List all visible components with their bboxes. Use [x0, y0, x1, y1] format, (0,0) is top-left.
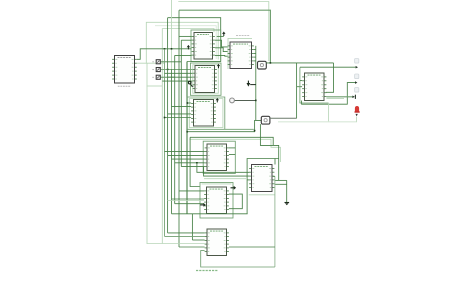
wire light stub	[147, 85, 163, 87]
junction	[254, 130, 256, 132]
wire button1 to right	[266, 62, 333, 64]
label above U5	[236, 35, 250, 37]
wire to U8 pin4 light	[168, 200, 205, 202]
clock/pin marker circle	[230, 98, 235, 103]
wire light echo	[204, 178, 246, 180]
power symbol	[231, 186, 237, 190]
power symbol	[216, 98, 219, 103]
wire to U7 pin6	[181, 166, 204, 168]
wire loop light around U5	[228, 38, 252, 69]
power symbol	[217, 64, 220, 68]
wire bundle v5	[178, 10, 180, 247]
junction	[270, 62, 272, 64]
junction	[187, 102, 189, 104]
wire loop around U3	[190, 63, 221, 95]
wire down to U8 loop	[190, 137, 200, 186]
wire loop around U2	[191, 30, 221, 62]
wire U2 to U5 c	[215, 54, 228, 57]
LED D1 red	[355, 106, 360, 113]
junction	[164, 117, 166, 119]
wire U1.p2 light	[137, 62, 165, 64]
wire to U2 pin6	[175, 54, 192, 56]
wire P1 to U2	[217, 35, 224, 37]
wire U7 right a	[229, 147, 235, 149]
wire bundle v2	[167, 18, 169, 233]
wire light below U9	[249, 194, 275, 196]
wire U5 pin stub	[254, 52, 256, 54]
wire to U10 pin4 light	[147, 243, 205, 245]
logic probe LP2	[355, 74, 359, 79]
wire long light vertical	[161, 29, 163, 244]
junction	[255, 100, 257, 102]
wire to U10 pin1	[168, 232, 205, 234]
wire v to U10	[191, 214, 193, 240]
IC U1 counter	[112, 55, 137, 83]
wire to button2	[188, 120, 262, 131]
wire to U3 pin3	[168, 76, 193, 78]
wire net-top light	[178, 2, 268, 62]
wire to U10 pin3	[192, 239, 204, 241]
value label below U1	[118, 85, 131, 87]
wire U1.p1 to U2 pin4	[137, 49, 192, 60]
wire to U6 pin	[297, 86, 303, 88]
wire S1 out	[161, 61, 182, 63]
IC U5	[228, 42, 254, 69]
wire U7 tap to U9 pin2	[197, 163, 250, 173]
junction	[164, 48, 166, 50]
push button B1	[258, 61, 267, 69]
wire light echo probe3	[326, 97, 344, 99]
logic input S2	[152, 68, 160, 72]
wire to U4 pin1	[187, 102, 191, 104]
wire bundle v6	[180, 40, 182, 166]
wire to U7 pin4	[172, 158, 205, 160]
power symbol U3 left	[188, 81, 193, 86]
wire loop around U4	[187, 97, 225, 129]
arrow probe3	[352, 95, 355, 99]
arrow probe1	[356, 66, 358, 69]
wire to U8 pin3	[172, 198, 205, 200]
IC U4	[191, 100, 216, 127]
wire light echo to U9	[190, 139, 281, 162]
wire loop lighter	[155, 26, 216, 59]
IC U7	[205, 144, 229, 171]
arrow below LED	[356, 114, 358, 117]
wire bundle v3	[171, 69, 173, 214]
IC U3	[193, 66, 217, 93]
wire U2 to U5 a	[215, 40, 228, 47]
junction	[186, 131, 188, 133]
wire stub U6	[300, 80, 302, 82]
wire button2 bottom to U9	[260, 124, 278, 180]
wire loop around U8	[200, 183, 233, 219]
logic probe LP3	[355, 88, 359, 93]
wire to U8 pin5	[175, 203, 204, 205]
push button B2	[261, 116, 270, 124]
wire U9 pin stub	[273, 175, 275, 177]
wire light to LED net	[328, 103, 330, 122]
wire to U7 pin3	[168, 154, 205, 156]
wire to probe2	[302, 83, 355, 105]
power symbol	[200, 203, 206, 207]
wire loop around U7	[203, 141, 235, 173]
wire to probe3	[326, 96, 352, 98]
wire U9 to gnd b	[274, 183, 286, 185]
wire to U10 pin5	[179, 246, 205, 248]
wire U9 top pin	[274, 159, 276, 165]
wire to U7 pin5	[175, 162, 205, 164]
wire stub to U9 pin4	[247, 179, 249, 181]
wire U5 pin stub	[254, 60, 256, 62]
wire loop light inner	[162, 29, 214, 33]
wire U7 right b	[229, 154, 235, 156]
wire down to U6 pin	[326, 63, 334, 92]
wire bundle v1	[164, 49, 166, 237]
wire button2 vertical	[296, 63, 298, 118]
wire to U9 right jog	[190, 137, 273, 145]
power symbol	[187, 45, 190, 50]
wire to U10 pin2	[165, 235, 205, 237]
wire to U4 pin4	[168, 113, 192, 115]
wire light LED bottom	[278, 121, 357, 123]
logic probe LP1	[355, 59, 359, 64]
wire light vertical top	[171, 0, 173, 69]
wire net-top2	[179, 10, 270, 63]
wire loop around U9	[247, 159, 279, 214]
wire from circle marker	[235, 99, 256, 101]
wire long light vertical	[146, 63, 148, 244]
IC U6	[302, 73, 326, 101]
wire gnd vertical	[286, 180, 288, 202]
value label below U10	[196, 270, 218, 272]
wire U7 tap to U9 pin3	[204, 167, 250, 177]
wire U5 pin stub	[254, 49, 256, 51]
junction	[196, 162, 198, 164]
wire to probe1	[300, 66, 356, 68]
wire U9 to bottom loop	[274, 176, 276, 267]
wire to U2 pin2	[181, 39, 191, 41]
wire to U2 pin1	[179, 35, 192, 37]
wire U9 to gnd a	[274, 179, 286, 181]
wire LED down	[356, 117, 358, 122]
wire to U4 pin2	[172, 106, 192, 108]
wire U8 bottom long	[172, 213, 248, 215]
wire S2 out to U3 pin1	[161, 68, 193, 70]
wire to U7 pin2	[165, 151, 205, 153]
wire to U3 pin2	[165, 72, 193, 74]
IC U10	[205, 229, 229, 256]
wire to U3 pin4	[162, 80, 192, 82]
power symbol	[222, 32, 225, 37]
IC U2	[192, 33, 215, 60]
wire loop light inner U4	[189, 99, 223, 128]
wire U5 pin stub	[254, 56, 256, 58]
IC U8	[204, 187, 229, 214]
wire loop light inner U3	[193, 65, 219, 93]
wire U10 right to loop	[229, 246, 275, 248]
wire to U4 pin5	[165, 117, 192, 119]
IC U9	[249, 165, 274, 192]
wire U8 right loop	[229, 194, 242, 209]
wire button2 right	[270, 117, 297, 119]
wire U5 right bus down to button2	[255, 46, 257, 121]
wire below U2	[187, 61, 221, 63]
wire to U8 pin1	[179, 190, 204, 192]
wire loop around U6	[300, 67, 329, 103]
ground symbol	[285, 203, 290, 206]
wire S3 out	[161, 76, 175, 78]
junction	[167, 69, 169, 71]
wire net-top3	[168, 18, 221, 62]
wire bundle v7 thick	[186, 62, 188, 214]
logic input S3	[152, 75, 160, 79]
wire bottom loop	[201, 251, 275, 267]
arrow probe2	[355, 81, 357, 84]
wire U2 to U5 b	[215, 48, 228, 52]
power tap below U5	[247, 81, 256, 87]
junction	[171, 48, 173, 50]
wire light echo U8 top	[202, 183, 232, 185]
wire loop U4 bottom to button2	[187, 128, 254, 130]
wire bundle v4	[174, 55, 176, 203]
wire loop light around U2	[146, 22, 218, 63]
logic input S1	[152, 60, 160, 64]
